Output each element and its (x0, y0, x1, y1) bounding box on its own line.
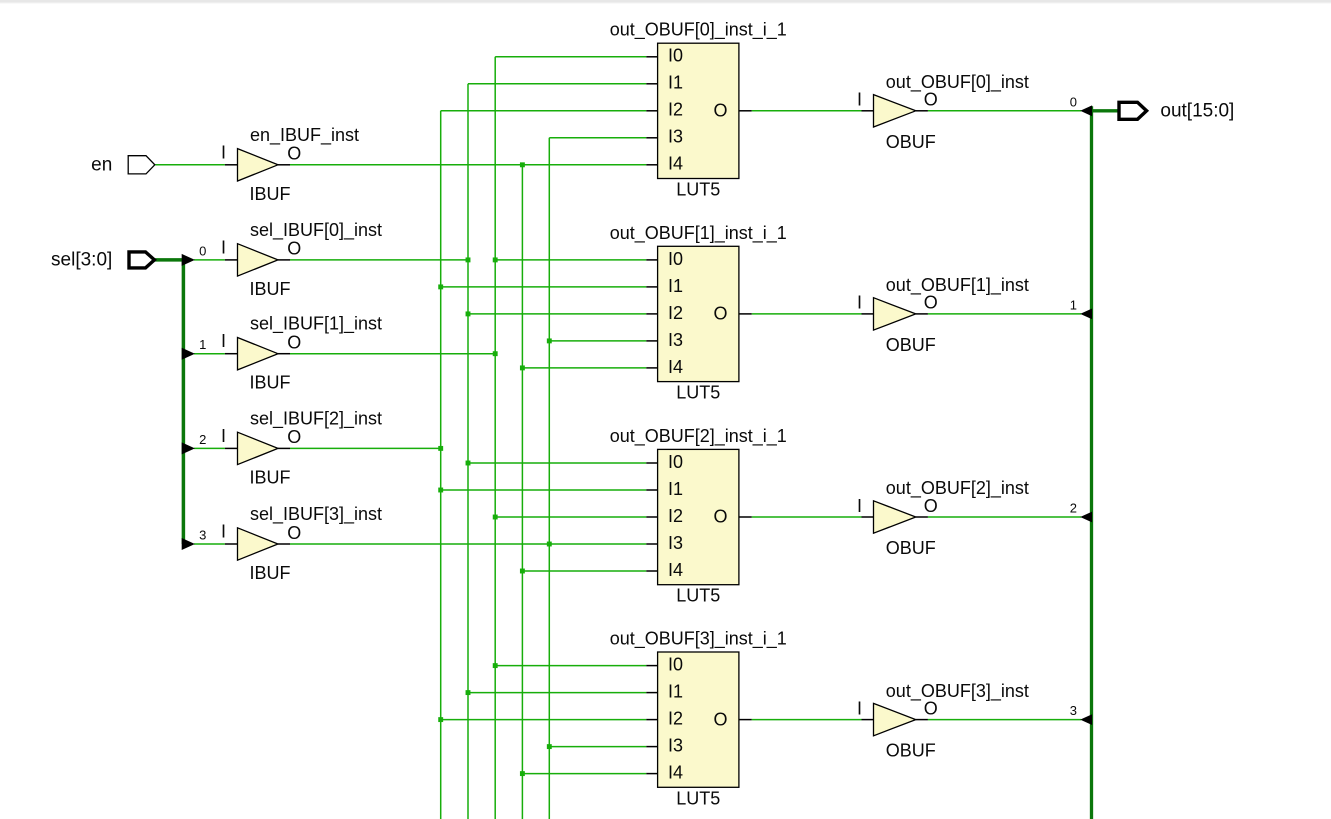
svg-text:I2: I2 (668, 100, 683, 120)
wire LUT1 I2 feed (468, 313, 646, 315)
junction LUT2 I1 / v440 (438, 488, 443, 493)
wire LUT3 I1 feed (468, 692, 646, 694)
wire sel bus tap 0 to IBUF input (194, 259, 225, 261)
LUT0 pin I0 stub (646, 56, 657, 58)
bus ripper arrow out[3] (1080, 714, 1092, 725)
wire LUT3 I4 feed (522, 773, 646, 775)
svg-text:OBUF: OBUF (886, 538, 936, 558)
input port en (128, 156, 155, 174)
LUT3 pin O stub (739, 719, 752, 721)
svg-text:O: O (713, 101, 727, 121)
buffer out_OBUF[0]_inst output pin stub (916, 110, 928, 112)
LUT1 pin I4 stub (646, 367, 657, 369)
junction LUT2 I2 / v495 (493, 515, 498, 520)
svg-text:sel_IBUF[0]_inst: sel_IBUF[0]_inst (250, 220, 382, 241)
svg-text:OBUF: OBUF (886, 741, 936, 761)
LUT cell out_OBUF[3]_inst_i_1 body (658, 652, 739, 787)
LUT2 pin I2 stub (646, 516, 657, 518)
wire sel_IBUF[0] output to junction (290, 259, 468, 261)
wire OBUF[0] output to out bus tap (928, 110, 1081, 112)
svg-text:IBUF: IBUF (250, 563, 291, 583)
LUT3 pin I1 stub (646, 692, 657, 694)
buffer sel_IBUF[0]_inst output pin stub (278, 259, 290, 261)
LUT1 pin I0 stub (646, 259, 657, 261)
buffer out_OBUF[1]_inst triangle (874, 298, 916, 330)
svg-text:I1: I1 (668, 479, 683, 499)
buffer out_OBUF[3]_inst triangle (874, 703, 916, 735)
bus ripper arrow out[2] (1080, 512, 1092, 523)
wire LUT0 I3 feed (549, 137, 646, 139)
buffer en_IBUF_inst input pin stub (225, 164, 238, 166)
wire LUT2 I0 feed (468, 462, 646, 464)
svg-text:out_OBUF[1]_inst_i_1: out_OBUF[1]_inst_i_1 (610, 223, 787, 244)
svg-text:sel_IBUF[3]_inst: sel_IBUF[3]_inst (250, 504, 382, 525)
bus ripper arrow sel[3] (182, 538, 195, 550)
svg-text:I1: I1 (668, 73, 683, 93)
svg-text:I3: I3 (668, 533, 683, 553)
svg-text:I0: I0 (668, 452, 683, 472)
bus ripper arrow out[1] (1080, 309, 1092, 320)
junction LUT3 I1 / v468 (466, 690, 471, 695)
svg-text:I2: I2 (668, 303, 683, 323)
svg-text:en: en (91, 155, 112, 176)
junction LUT3 I3 / v549 (547, 744, 552, 749)
junction LUT1 I4 / v522 (520, 365, 525, 370)
wire LUT0 I0 feed (495, 56, 646, 58)
svg-text:I3: I3 (668, 127, 683, 147)
buffer out_OBUF[1]_inst output pin stub (916, 313, 928, 315)
wire LUT0 O to OBUF[0] input (752, 110, 862, 112)
wire LUT1 I0 feed (495, 259, 646, 261)
wire sel bus tap 3 to IBUF input (194, 543, 225, 545)
LUT1 pin I2 stub (646, 313, 657, 315)
svg-text:IBUF: IBUF (250, 373, 291, 393)
wire sel bus tap 2 to IBUF input (194, 447, 225, 449)
svg-text:I: I (857, 90, 862, 110)
buffer out_OBUF[2]_inst input pin stub (862, 516, 874, 518)
LUT0 pin O stub (739, 110, 752, 112)
LUT3 pin I4 stub (646, 773, 657, 775)
bus ripper arrow sel[1] (182, 348, 195, 360)
svg-text:I4: I4 (668, 357, 683, 377)
svg-text:2: 2 (199, 432, 206, 447)
LUT2 pin I0 stub (646, 462, 657, 464)
wire sel bus tap 1 to IBUF input (194, 353, 225, 355)
wire LUT3 I3 feed (549, 746, 646, 748)
svg-text:I4: I4 (668, 560, 683, 580)
bus out[15:0] horizontal to port (1090, 109, 1118, 112)
wire LUT0 I1 feed (468, 83, 646, 85)
svg-text:I0: I0 (668, 249, 683, 269)
svg-text:I: I (857, 698, 862, 718)
svg-text:out_OBUF[3]_inst_i_1: out_OBUF[3]_inst_i_1 (610, 629, 787, 650)
bus ripper arrow sel[0] (182, 254, 195, 266)
svg-text:I2: I2 (668, 709, 683, 729)
junction LUT3 I2 / v440 (438, 717, 443, 722)
bus out[15:0] vertical (1090, 106, 1093, 819)
wire OBUF[3] output to out bus tap (928, 719, 1081, 721)
svg-text:3: 3 (199, 527, 206, 542)
svg-text:3: 3 (1070, 703, 1077, 718)
svg-text:1: 1 (1070, 298, 1077, 313)
LUT cell out_OBUF[2]_inst_i_1 body (658, 449, 739, 584)
wire LUT1 I1 feed (441, 286, 647, 288)
wire LUT2 O to OBUF[2] input (752, 516, 862, 518)
svg-text:O: O (713, 507, 727, 527)
svg-text:I: I (857, 496, 862, 516)
svg-text:LUT5: LUT5 (676, 180, 720, 200)
junction LUT1 I3 / v549 (547, 338, 552, 343)
svg-text:sel_IBUF[2]_inst: sel_IBUF[2]_inst (250, 408, 382, 429)
svg-text:OBUF: OBUF (886, 132, 936, 152)
LUT1 pin O stub (739, 313, 752, 315)
bus ripper arrow sel[2] (182, 442, 195, 454)
junction LUT2 I4 / v522 (520, 569, 525, 574)
LUT2 pin I3 stub (646, 543, 657, 545)
bus sel[3:0] horizontal from port (154, 258, 185, 262)
LUT0 pin I4 stub (646, 164, 657, 166)
svg-text:I: I (857, 293, 862, 313)
buffer sel_IBUF[3]_inst output pin stub (278, 543, 290, 545)
svg-text:O: O (287, 427, 301, 447)
junction LUT2 I3 / v549 (547, 542, 552, 547)
wire LUT2 I4 feed (522, 570, 646, 572)
bus sel[3:0] vertical (182, 260, 186, 544)
junction LUT3 I4 / v522 (520, 771, 525, 776)
svg-text:0: 0 (1070, 94, 1077, 109)
top toolbar strip (0, 0, 1331, 3)
buffer sel_IBUF[2]_inst output pin stub (278, 447, 290, 449)
LUT0 pin I3 stub (646, 137, 657, 139)
svg-text:out_OBUF[3]_inst: out_OBUF[3]_inst (886, 681, 1029, 702)
svg-text:out_OBUF[0]_inst_i_1: out_OBUF[0]_inst_i_1 (610, 20, 787, 41)
svg-text:LUT5: LUT5 (676, 586, 720, 606)
wire net sel_IBUF[1] vertical (494, 57, 496, 819)
buffer sel_IBUF[1]_inst triangle (238, 338, 279, 370)
svg-text:I3: I3 (668, 736, 683, 756)
svg-text:LUT5: LUT5 (676, 788, 720, 808)
input port sel[3:0] (129, 252, 154, 268)
bus ripper arrow out[0] (1080, 105, 1092, 116)
junction LUT3 I0 / v495 (493, 663, 498, 668)
LUT0 pin I2 stub (646, 110, 657, 112)
wire LUT0 I2 feed (441, 110, 647, 112)
svg-text:I: I (221, 331, 226, 351)
wire en port to IBUF input (155, 164, 225, 166)
buffer out_OBUF[1]_inst input pin stub (862, 313, 874, 315)
svg-text:out_OBUF[2]_inst: out_OBUF[2]_inst (886, 478, 1029, 499)
wire LUT2 I2 feed (495, 516, 646, 518)
svg-text:IBUF: IBUF (250, 467, 291, 487)
svg-text:O: O (287, 333, 301, 353)
buffer en_IBUF_inst triangle (238, 149, 279, 181)
svg-text:I0: I0 (668, 46, 683, 66)
wire net sel_IBUF[3] horizontal to LUT2 I3 (290, 543, 646, 545)
buffer sel_IBUF[2]_inst input pin stub (225, 447, 238, 449)
svg-text:out_OBUF[0]_inst: out_OBUF[0]_inst (886, 72, 1029, 93)
wire LUT1 I4 feed (522, 367, 646, 369)
wire LUT3 I2 feed (441, 719, 647, 721)
wire LUT2 I1 feed (441, 489, 647, 491)
svg-text:IBUF: IBUF (250, 184, 291, 204)
LUT cell out_OBUF[1]_inst_i_1 body (658, 246, 739, 381)
junction LUT1 I1 / v440 (438, 284, 443, 289)
wire net sel_IBUF[0] vertical (467, 84, 469, 819)
wire net en_IBUF vertical (521, 165, 523, 819)
buffer out_OBUF[0]_inst triangle (874, 95, 916, 127)
wire sel_IBUF[2] output to junction (290, 447, 441, 449)
wire LUT3 I0 feed (495, 665, 646, 667)
wire sel_IBUF[1] output to junction (290, 353, 495, 355)
svg-text:I: I (221, 522, 226, 542)
svg-text:0: 0 (199, 243, 206, 258)
LUT2 pin I1 stub (646, 489, 657, 491)
svg-text:O: O (713, 709, 727, 729)
buffer out_OBUF[2]_inst output pin stub (916, 516, 928, 518)
svg-text:out_OBUF[2]_inst_i_1: out_OBUF[2]_inst_i_1 (610, 426, 787, 447)
LUT3 pin I0 stub (646, 665, 657, 667)
wire LUT3 O to OBUF[3] input (752, 719, 862, 721)
LUT2 pin O stub (739, 516, 752, 518)
wire net en_IBUF horizontal to LUT0 I4 (290, 164, 646, 166)
svg-text:O: O (287, 523, 301, 543)
svg-text:I: I (221, 142, 226, 162)
LUT cell out_OBUF[0]_inst_i_1 body (658, 43, 739, 178)
svg-text:en_IBUF_inst: en_IBUF_inst (250, 125, 359, 146)
svg-text:O: O (924, 293, 938, 313)
LUT0 pin I1 stub (646, 83, 657, 85)
buffer out_OBUF[0]_inst input pin stub (862, 110, 874, 112)
wire net sel_IBUF[3] vertical (548, 138, 550, 819)
svg-text:O: O (713, 304, 727, 324)
buffer out_OBUF[3]_inst input pin stub (862, 719, 874, 721)
buffer sel_IBUF[0]_inst input pin stub (225, 259, 238, 261)
LUT1 pin I3 stub (646, 340, 657, 342)
svg-text:out[15:0]: out[15:0] (1160, 100, 1234, 121)
wire OBUF[2] output to out bus tap (928, 516, 1081, 518)
svg-text:1: 1 (199, 337, 206, 352)
buffer out_OBUF[2]_inst triangle (874, 501, 916, 533)
svg-text:O: O (924, 496, 938, 516)
svg-text:I4: I4 (668, 763, 683, 783)
svg-text:I0: I0 (668, 655, 683, 675)
svg-text:I3: I3 (668, 330, 683, 350)
buffer sel_IBUF[3]_inst triangle (238, 528, 279, 560)
buffer out_OBUF[3]_inst output pin stub (916, 719, 928, 721)
buffer sel_IBUF[0]_inst triangle (238, 244, 279, 276)
junction LUT1 I2 / v468 (466, 311, 471, 316)
output port out[15:0] (1119, 102, 1147, 119)
junction en_IBUF / v522 (520, 162, 525, 167)
LUT3 pin I3 stub (646, 746, 657, 748)
svg-text:I: I (221, 237, 226, 257)
wire LUT1 O to OBUF[1] input (752, 313, 862, 315)
LUT1 pin I1 stub (646, 286, 657, 288)
wire OBUF[1] output to out bus tap (928, 313, 1081, 315)
junction sel_IBUF[1] / v495 (493, 351, 498, 356)
junction LUT2 I0 / v468 (466, 461, 471, 466)
svg-text:O: O (924, 90, 938, 110)
svg-text:out_OBUF[1]_inst: out_OBUF[1]_inst (886, 275, 1029, 296)
svg-text:sel_IBUF[1]_inst: sel_IBUF[1]_inst (250, 314, 382, 335)
svg-text:I: I (221, 426, 226, 446)
svg-text:IBUF: IBUF (250, 279, 291, 299)
junction sel_IBUF[0] / v468 (466, 257, 471, 262)
svg-text:2: 2 (1070, 501, 1077, 516)
svg-text:I2: I2 (668, 506, 683, 526)
buffer sel_IBUF[1]_inst output pin stub (278, 353, 290, 355)
svg-text:I1: I1 (668, 276, 683, 296)
buffer en_IBUF_inst output pin stub (278, 164, 290, 166)
buffer sel_IBUF[2]_inst triangle (238, 432, 279, 464)
svg-text:I1: I1 (668, 682, 683, 702)
svg-text:sel[3:0]: sel[3:0] (51, 250, 112, 271)
svg-text:I4: I4 (668, 154, 683, 174)
svg-text:O: O (924, 698, 938, 718)
svg-text:LUT5: LUT5 (676, 383, 720, 403)
buffer sel_IBUF[1]_inst input pin stub (225, 353, 238, 355)
junction LUT1 I0 / v495 (493, 257, 498, 262)
LUT3 pin I2 stub (646, 719, 657, 721)
wire LUT1 I3 feed (549, 340, 646, 342)
junction sel_IBUF[2] / v440 (438, 446, 443, 451)
wire net sel_IBUF[2] vertical (440, 111, 442, 819)
buffer sel_IBUF[3]_inst input pin stub (225, 543, 238, 545)
svg-text:O: O (287, 144, 301, 164)
svg-text:OBUF: OBUF (886, 335, 936, 355)
svg-text:O: O (287, 239, 301, 259)
LUT2 pin I4 stub (646, 570, 657, 572)
